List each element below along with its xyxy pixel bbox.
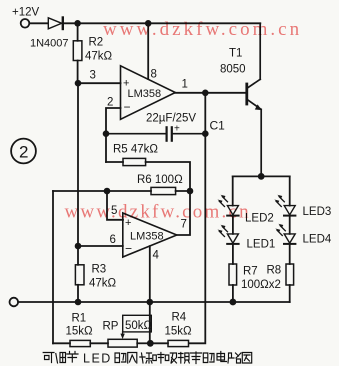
wire LED1 to R7 — [232, 244, 234, 264]
烁 — [140, 353, 152, 363]
node pin4 ground junction — [147, 299, 154, 306]
wire R2 top lead — [77, 23, 79, 41]
LED2 emission arrows — [219, 197, 227, 207]
resistor R4 15kΩ — [168, 340, 189, 346]
的 — [115, 353, 126, 363]
节 — [67, 352, 78, 363]
svg-text:C1: C1 — [210, 119, 226, 133]
svg-text:+12V: +12V — [12, 7, 40, 19]
wire pin 8 to +12V rail — [147, 23, 149, 79]
capacitor 22µF/25V — [106, 127, 205, 140]
wire output pin1 to base — [175, 92, 246, 94]
svg-text:R1: R1 — [72, 313, 87, 325]
svg-text:LED4: LED4 — [303, 234, 332, 246]
可 — [43, 353, 54, 363]
node junction pin8 rail — [145, 20, 152, 27]
svg-text:LED1: LED1 — [247, 239, 276, 251]
wire R3 bottom lead — [77, 285, 79, 302]
路 — [228, 353, 241, 363]
node cap left junction — [103, 130, 110, 137]
svg-text:−: − — [124, 100, 131, 114]
svg-text:8050: 8050 — [220, 64, 246, 76]
svg-text:R4: R4 — [172, 312, 187, 324]
terminal ground — [10, 298, 19, 307]
svg-text:LM358: LM358 — [130, 231, 164, 243]
LED3 emission arrows — [276, 197, 284, 207]
node pin6 junction — [75, 243, 82, 250]
resistor R1 15kΩ — [70, 340, 90, 346]
闪 — [128, 353, 137, 364]
op-amp U1B LM358 — [123, 213, 177, 257]
调 — [56, 353, 66, 364]
wire R5 row left — [106, 161, 123, 163]
resistor R3 47kΩ — [75, 265, 84, 285]
svg-text:LED3: LED3 — [303, 206, 332, 218]
figure number circled 2 — [11, 139, 36, 164]
potentiometer RP 50kΩ — [108, 339, 137, 347]
svg-text:100Ωx2: 100Ωx2 — [241, 279, 281, 291]
wire LED branch top rail — [233, 175, 290, 177]
op-amp U1A LM358 — [121, 66, 176, 120]
node pin3 junction — [75, 80, 82, 87]
svg-text:2: 2 — [19, 143, 28, 162]
svg-text:R8: R8 — [267, 265, 282, 277]
wire node to R4 — [150, 342, 168, 344]
svg-text:2: 2 — [107, 97, 113, 109]
wire LED4 to R8 — [289, 244, 291, 264]
diode D 1N4007 — [48, 18, 63, 30]
node cap right junction — [202, 130, 209, 137]
LED4 — [284, 234, 295, 244]
resistor R8 — [286, 264, 294, 285]
svg-text:15kΩ: 15kΩ — [66, 326, 94, 338]
LED1 — [227, 234, 238, 244]
电 — [217, 352, 227, 362]
caption: 可调节 LED 的闪烁呼吸频率的电路图 (fake glyphs) — [43, 352, 252, 366]
svg-text:50kΩ: 50kΩ — [125, 320, 153, 332]
wire left LED branch upper — [232, 176, 234, 205]
wire R5 row right + corner down — [146, 162, 190, 191]
resistor R5 47kΩ — [123, 158, 146, 165]
wire top +12V rail — [64, 22, 261, 24]
node junction diode/R2 — [74, 20, 81, 27]
svg-text:47kΩ: 47kΩ — [89, 278, 117, 290]
svg-text:4: 4 — [153, 250, 160, 262]
wire terminal to diode — [30, 22, 48, 24]
svg-text:22µF/25V: 22µF/25V — [146, 113, 196, 125]
wire pin 5 input — [107, 191, 123, 220]
svg-text:RP: RP — [103, 321, 119, 333]
LED2 — [227, 206, 238, 216]
wire R7 to ground rail — [232, 285, 234, 302]
wire R3 top lead — [77, 246, 79, 265]
terminal +12V — [21, 19, 30, 28]
svg-text:1: 1 — [182, 79, 188, 91]
wire R8 to ground rail corner — [289, 285, 291, 302]
wire R2 bottom lead — [77, 61, 79, 84]
transistor T1 8050 — [247, 23, 261, 176]
svg-text:1N4007: 1N4007 — [30, 38, 69, 50]
node R3 ground junction — [75, 299, 82, 306]
wire lower divider rail — [53, 342, 70, 344]
svg-text:3: 3 — [90, 70, 96, 82]
LED1 emission arrows — [219, 227, 227, 237]
LED4 emission arrows — [277, 226, 285, 236]
LED3 — [284, 206, 295, 216]
svg-text:T1: T1 — [229, 48, 242, 60]
wire output bus down to R4 corner — [189, 93, 205, 343]
resistor R7 — [229, 264, 237, 285]
svg-text:www.dzkfw.com.cn: www.dzkfw.com.cn — [65, 202, 251, 223]
svg-text:www.dzkfw.com.cn: www.dzkfw.com.cn — [103, 19, 302, 40]
wire ground rail — [18, 301, 289, 303]
wire output pin7 up to feedback node — [177, 191, 190, 235]
svg-text:LED: LED — [83, 352, 112, 366]
node feedback junction — [187, 188, 194, 195]
wire pin 3 input — [78, 82, 121, 84]
svg-text:+: + — [174, 124, 180, 135]
wire right LED branch upper — [289, 176, 291, 205]
svg-text:R3: R3 — [92, 264, 107, 276]
wire pin 6 input — [78, 245, 123, 247]
node pin5 junction — [104, 188, 111, 195]
svg-text:R2: R2 — [89, 37, 104, 49]
svg-text:8: 8 — [151, 69, 157, 81]
wire R1 to RP — [90, 342, 108, 344]
svg-text:LM358: LM358 — [128, 88, 162, 100]
svg-text:R5 47kΩ: R5 47kΩ — [113, 144, 158, 156]
wire R6 row left — [53, 190, 151, 192]
wire LED3 to LED4 — [289, 216, 291, 234]
wire pin 4 to ground — [149, 246, 151, 343]
svg-text:15kΩ: 15kΩ — [165, 326, 193, 338]
wire pin 2 loop to cap node — [106, 108, 121, 162]
node output1 junction — [202, 90, 209, 97]
wire LED2 to LED1 — [232, 216, 234, 234]
node R7 ground junction — [230, 299, 237, 306]
svg-text:−: − — [125, 242, 132, 256]
的 — [203, 353, 214, 363]
呼 — [153, 353, 164, 364]
wire vertical R2/R3 bus — [77, 83, 79, 246]
node divider/ground junction — [147, 340, 154, 347]
svg-text:R7: R7 — [243, 266, 258, 278]
wire divider bus x=53 down — [52, 191, 54, 343]
图 — [242, 353, 251, 364]
吸 — [165, 353, 176, 363]
svg-text:R6 100Ω: R6 100Ω — [137, 174, 183, 186]
svg-text:47kΩ: 47kΩ — [85, 51, 113, 63]
svg-text:6: 6 — [110, 234, 116, 246]
wire RP to node — [137, 342, 150, 344]
node emitter/LED junction — [258, 173, 265, 180]
resistor R2 47kΩ — [73, 41, 82, 61]
wire R6 row right — [176, 190, 190, 192]
频 — [178, 353, 189, 364]
率 — [191, 352, 202, 364]
resistor R6 100Ω — [151, 187, 176, 194]
